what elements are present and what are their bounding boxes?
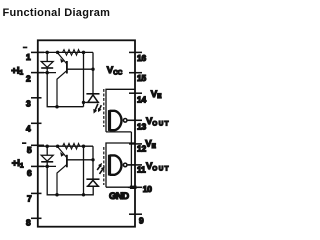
wire: channel 1 anode rail from pin 1: [38, 51, 93, 53]
wire: vertical A1: [83, 52, 85, 106]
svg-text:3: 3: [26, 99, 31, 109]
node: LED2 cathode junction on pin6 rail: [45, 165, 49, 169]
node: rail-vertical A1 junction: [82, 51, 86, 55]
node: A1 meets anode wire: [82, 101, 85, 104]
node: base wire meets vertical B2: [91, 158, 94, 161]
svg-text:GND: GND: [109, 191, 129, 202]
transistor Q2 base bar: [66, 155, 68, 168]
transistor Q1 base bar: [66, 61, 68, 74]
pin 16: [129, 51, 142, 53]
pin 11: [128, 164, 142, 166]
pin 12: [129, 143, 142, 145]
node: vertical A2 junction on bottom wire 2: [82, 193, 85, 196]
optical barrier dashed line channel 2: [103, 147, 105, 185]
pin 15: [129, 72, 142, 74]
transistor Q1 collector: [57, 71, 67, 107]
svg-text:16: 16: [137, 53, 146, 63]
pin 9: [129, 213, 142, 215]
svg-text:+I1: +I1: [12, 158, 24, 169]
svg-text:14: 14: [137, 95, 146, 105]
pin 8: [31, 217, 42, 219]
node: rail-emitter Q2 junction: [56, 144, 60, 148]
wire: pin 6 rail: [38, 165, 56, 167]
pin 3: [31, 97, 42, 99]
svg-text:9: 9: [139, 215, 144, 225]
node: rail-LED2 junction: [45, 144, 49, 148]
node: rail-vertical A2 junction: [82, 144, 86, 148]
gate U1: [108, 110, 111, 131]
wire: anode wire to emitter diode 1: [84, 101, 100, 103]
pin 2: [31, 72, 44, 74]
node: rail-emitter Q1 junction: [56, 51, 60, 55]
pin 7: [31, 192, 42, 194]
pin 14: [129, 92, 142, 94]
detector box channel 1: [106, 89, 135, 132]
wire: vertical B2 from rail corner to emitter diode 2: [92, 146, 94, 179]
pin 6: [31, 165, 44, 167]
wire: LED1 cathode drop to bottom wire: [47, 73, 83, 107]
wire: Q2 base to node B2: [67, 159, 93, 161]
node: ground junction blob: [130, 186, 137, 189]
pin 13: [128, 119, 142, 121]
svg-text:11: 11: [137, 164, 146, 174]
svg-text:5: 5: [27, 145, 32, 155]
svg-text:VOUT: VOUT: [146, 116, 170, 127]
wire: vertical B1 from rail corner to emitter diode CR1 cathode: [92, 52, 94, 93]
optical barrier dashed line channel 1: [103, 89, 105, 127]
wire: Q1 base to node B1: [67, 68, 93, 70]
label minus channel 1: [23, 47, 28, 49]
wire: gate U1 output to pin 13: [127, 119, 135, 121]
title: [3, 7, 111, 19]
svg-text:4: 4: [26, 123, 31, 133]
emitter diode CR1 (cathode bar + triangle): [86, 93, 99, 95]
svg-text:8: 8: [26, 217, 31, 227]
wire: ground bus from detector box 1: [130, 132, 132, 187]
gate U2: [108, 155, 111, 176]
svg-text:7: 7: [27, 194, 32, 204]
transistor Q2 (PNP) emitter: [58, 147, 67, 158]
light arrows channel 2: [97, 166, 100, 170]
svg-text:VE: VE: [145, 138, 156, 149]
resistor R1: [63, 50, 80, 56]
pin 1: [31, 51, 44, 53]
wire: channel 2 anode rail from pin 5: [38, 145, 93, 147]
svg-text:2: 2: [26, 74, 31, 84]
LED D1: [46, 52, 48, 61]
light arrows channel 1: [95, 104, 98, 110]
wire: gate U2 output to pin 11: [127, 164, 135, 166]
svg-text:VOUT: VOUT: [146, 161, 170, 172]
node: base wire meets vertical B1: [91, 68, 94, 71]
node: collector Q1 junction on bottom wire: [55, 105, 59, 109]
emitter diode CR2 (cathode bar + triangle): [86, 178, 99, 180]
svg-text:15: 15: [137, 73, 146, 83]
resistor R2: [63, 143, 80, 149]
pin 5: [31, 144, 44, 146]
LED D2: [46, 146, 48, 155]
transistor Q2 collector: [57, 164, 67, 194]
svg-text:VE: VE: [151, 89, 162, 100]
svg-text:+I1: +I1: [11, 65, 23, 76]
svg-text:10: 10: [143, 184, 152, 194]
node: collector Q2 junction on bottom wire 2: [55, 193, 59, 197]
detector box channel 2: [106, 143, 135, 187]
IC package outline box: [38, 40, 135, 226]
node: LED1 cathode junction on pin2 rail: [45, 71, 49, 75]
wire: vertical A2: [83, 146, 85, 195]
svg-text:VCC: VCC: [107, 65, 123, 77]
pin 4: [31, 122, 42, 124]
node: rail-LED1 junction: [45, 51, 49, 55]
transistor Q1 (PNP) emitter: [58, 53, 67, 64]
pin 10: [128, 186, 142, 188]
svg-text:1: 1: [26, 52, 31, 62]
svg-text:6: 6: [27, 168, 32, 178]
wire: pin 2 rail: [38, 72, 56, 74]
label minus channel 2: [22, 142, 26, 144]
wire: LED2 cathode drop to bottom wire 2: [47, 166, 93, 194]
